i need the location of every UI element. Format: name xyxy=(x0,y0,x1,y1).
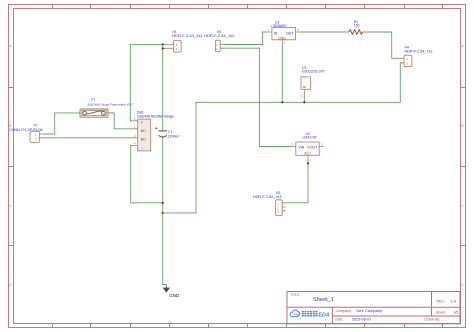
svg-text:Your Company: Your Company xyxy=(356,308,382,313)
capacitor C1 xyxy=(155,127,179,138)
svg-text:Sheet_1: Sheet_1 xyxy=(313,297,334,303)
fuse F1 xyxy=(80,97,134,117)
junction dot U1 GND at rail xyxy=(281,101,283,103)
svg-text:1.0: 1.0 xyxy=(451,299,457,304)
svg-text:HDR-F-2.54_1x2: HDR-F-2.54_1x2 xyxy=(172,33,203,38)
svg-text:HDR-F-2.54_1x2: HDR-F-2.54_1x2 xyxy=(405,50,433,54)
wire GND branch to rail xyxy=(163,102,196,213)
svg-text:HDR-F-2.54_1x3: HDR-F-2.54_1x3 xyxy=(253,195,281,199)
wire DB1 + to H1 pin1 xyxy=(130,44,165,120)
svg-text:+: + xyxy=(141,120,144,125)
wire H1 pin2 stub link xyxy=(163,48,166,50)
regulator U1 xyxy=(267,20,300,44)
wire U2 ADJ to H3 pin1 xyxy=(285,159,308,203)
svg-text:AC: AC xyxy=(141,129,146,133)
svg-text:2200uF: 2200uF xyxy=(168,134,180,138)
junction dot H1 pin2 xyxy=(162,47,164,49)
svg-text:5x20 BLK-Xtype Fuse holder XC-: 5x20 BLK-Xtype Fuse holder XC-7 xyxy=(88,102,134,106)
svg-text:ADJ: ADJ xyxy=(304,151,311,155)
junction dot U2 ADJ xyxy=(307,162,309,164)
svg-text:Date:: Date: xyxy=(336,317,344,321)
svg-text:GND: GND xyxy=(169,293,180,298)
wire U1 GND to rail xyxy=(281,44,283,103)
svg-text:2023-08-07: 2023-08-07 xyxy=(352,317,371,321)
wire GND rail xyxy=(196,101,400,103)
svg-text:F1: F1 xyxy=(92,97,96,101)
svg-text:IN: IN xyxy=(274,31,278,35)
rectifier bridge DB1 xyxy=(133,111,174,151)
junction dot GND branch xyxy=(162,212,164,214)
wire H1 pin1 to H1 pin2 to C1 top xyxy=(162,44,164,130)
wire F1 to DB1 AC1 xyxy=(114,113,133,129)
svg-text:Drawn By:: Drawn By: xyxy=(425,317,441,321)
resistor R1 xyxy=(349,20,363,34)
svg-text:L7805ABV: L7805ABV xyxy=(271,24,288,28)
svg-text:150: 150 xyxy=(354,24,360,28)
svg-text:HDR-F-2.54_1x2: HDR-F-2.54_1x2 xyxy=(204,33,235,38)
svg-text:EDA: EDA xyxy=(318,312,329,318)
header H4 xyxy=(400,46,432,67)
wire DB1 - to GND net xyxy=(131,145,163,202)
svg-text:XSD1226-307: XSD1226-307 xyxy=(302,69,325,73)
wire U3 pin1 to rail xyxy=(303,94,305,103)
junction dot U3 at rail xyxy=(303,101,305,103)
svg-text:LM317AT: LM317AT xyxy=(303,136,317,140)
ground xyxy=(163,287,180,299)
component U3 xyxy=(301,66,325,98)
svg-text:CONN-TH_2P-P5.08: CONN-TH_2P-P5.08 xyxy=(9,128,43,132)
svg-text:Sheet:: Sheet: xyxy=(436,311,446,315)
wire H2 pin1 to U1 IN xyxy=(224,32,267,45)
wire R1 to H4 pin1 xyxy=(363,32,401,58)
svg-text:Company:: Company: xyxy=(336,309,352,313)
svg-text:AC: AC xyxy=(141,138,146,142)
junction dot H1 pin1 xyxy=(162,43,164,45)
header H1 xyxy=(165,30,203,52)
regulator U2 xyxy=(291,132,324,162)
svg-text:GBU408 Rectifier bridge: GBU408 Rectifier bridge xyxy=(137,114,174,118)
header H3 xyxy=(253,191,286,216)
wire H2 pin2 to U2 VIN xyxy=(224,48,291,146)
wire C1 bottom to GND symbol xyxy=(163,136,167,288)
wire P1.2 to DB1 AC2 xyxy=(43,137,133,139)
svg-text:VIN: VIN xyxy=(298,146,304,150)
svg-text:OUT: OUT xyxy=(286,31,294,35)
svg-text:GND: GND xyxy=(278,36,286,40)
wire P1.1 to F1 xyxy=(43,113,80,134)
svg-text:TITLE:: TITLE: xyxy=(291,293,301,297)
header H2 xyxy=(204,30,235,52)
connector P1 xyxy=(9,124,43,143)
wire U1 OUT to R1 xyxy=(300,31,349,33)
wire rail to H4 pin2 xyxy=(400,63,404,103)
svg-text:VOUT: VOUT xyxy=(307,146,318,150)
svg-text:REV:: REV: xyxy=(437,299,445,303)
svg-text:1/1: 1/1 xyxy=(453,310,458,315)
junction dot GND net at bridge return xyxy=(162,202,164,204)
